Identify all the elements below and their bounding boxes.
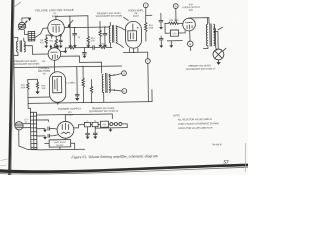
riser right xyxy=(151,90,153,102)
wire V7 grid input xyxy=(35,28,48,38)
tube V9 plate xyxy=(53,76,62,92)
tube V9 inner xyxy=(55,78,57,91)
label plate box xyxy=(49,140,71,147)
ground C15 xyxy=(159,45,163,47)
wire T1 secondary top xyxy=(23,38,25,41)
capacitor C21 xyxy=(94,127,96,133)
node E xyxy=(122,89,127,94)
ground C9 xyxy=(73,45,77,47)
riser plate box xyxy=(59,147,61,150)
wire terminal extension xyxy=(122,124,127,128)
transformer T2 core xyxy=(111,25,113,42)
bus drop to R24 xyxy=(111,114,113,119)
wire T3 primary top xyxy=(207,18,209,24)
wire T3 rail 2 xyxy=(217,32,219,49)
paper grain xyxy=(0,0,1,1)
capacitor C15 xyxy=(160,36,162,38)
wire M1 top xyxy=(22,18,29,22)
resistor R22 xyxy=(82,67,84,78)
node D xyxy=(122,71,127,76)
ground C13 xyxy=(159,27,163,29)
ground R12 xyxy=(98,45,102,47)
tube V10 cathode xyxy=(187,25,192,29)
ground right xyxy=(170,41,172,45)
wire V7 plate to top bus xyxy=(55,16,57,19)
top-left scan mark xyxy=(15,2,22,7)
bus below V8 xyxy=(123,51,147,53)
left riser xyxy=(27,79,29,82)
wire T5 feed xyxy=(80,62,102,73)
ground R10 xyxy=(55,44,57,45)
ground C12 xyxy=(83,56,87,58)
capacitor C20 xyxy=(86,127,88,133)
resistor R19 xyxy=(165,22,169,24)
wire node F drop xyxy=(144,8,147,23)
wire lower link xyxy=(167,40,182,42)
wire V6 pin leads top xyxy=(51,44,58,48)
wire V10 cathode drop xyxy=(189,31,191,41)
resistor R24 box xyxy=(100,121,108,127)
ground C8 xyxy=(59,46,63,48)
jack J2 stub xyxy=(223,48,226,51)
tube V8 plate xyxy=(128,31,137,41)
transformer T2 primary winding xyxy=(109,26,110,43)
wire T1 secondary to V6 xyxy=(24,45,48,54)
arrowhead to stage xyxy=(28,18,32,22)
tube V6 grid xyxy=(51,51,58,53)
wire V6 to V9 xyxy=(54,60,56,71)
bottom-left streaks xyxy=(1,159,8,161)
bottom scan band xyxy=(0,164,248,174)
rectifier V11 filament xyxy=(62,132,70,134)
binding edge bar xyxy=(8,0,14,175)
wire bus to T2 xyxy=(107,46,112,48)
tube V7 pin 4 xyxy=(51,35,53,37)
arrowhead xyxy=(67,23,70,27)
node C xyxy=(147,52,149,58)
wire T4 tap 2 xyxy=(37,128,45,130)
wire node B drop xyxy=(189,47,191,51)
terminal O1 xyxy=(110,123,113,126)
wire V6 plate right xyxy=(61,51,66,53)
wire T2 secondary bottom xyxy=(116,43,123,48)
rectifier V11 plates xyxy=(62,123,68,129)
bus row4 top xyxy=(36,114,112,115)
capacitor C17 xyxy=(76,67,78,95)
wire V7 cathode lead xyxy=(51,36,53,38)
ground output xyxy=(109,128,111,130)
lower output rail xyxy=(95,127,127,129)
junction dot plate bus xyxy=(74,27,75,28)
wire node A drop xyxy=(175,8,177,21)
capacitor C11 xyxy=(92,45,94,49)
resistor R12 xyxy=(99,21,101,30)
wire stub right xyxy=(146,14,152,16)
wire bus segment xyxy=(76,47,93,49)
resistor R9 xyxy=(45,37,47,44)
wire tap stub xyxy=(218,27,223,30)
transformer T5 primary winding xyxy=(102,74,104,92)
resistor R18 xyxy=(144,22,147,31)
jack J2 xyxy=(213,49,224,60)
wire R24 out xyxy=(108,123,109,125)
capacitor C22 xyxy=(47,134,49,138)
tube V7 grid xyxy=(52,23,61,25)
bus row3 bottom xyxy=(28,102,152,104)
wire T1 primary top xyxy=(13,37,17,41)
wire T2 secondary top diagonal xyxy=(116,26,126,31)
ground column 1 xyxy=(68,45,72,47)
wire V7 screen lead xyxy=(60,36,62,39)
rectifier V11 envelope xyxy=(57,121,74,138)
transformer T3 core xyxy=(209,23,211,46)
wire choke link xyxy=(90,123,100,125)
tube V9 envelope xyxy=(49,72,66,103)
wire P1 leads xyxy=(23,124,31,128)
wire T5 secondary bottom lead xyxy=(109,90,122,92)
capacitor C8 xyxy=(59,39,63,41)
choke L1 xyxy=(84,122,90,126)
terminal O3 xyxy=(119,122,122,125)
node F xyxy=(143,3,148,8)
switch S1 xyxy=(28,31,35,40)
resistor R23 xyxy=(90,79,92,86)
ground C10 xyxy=(103,45,107,47)
tube V8 envelope xyxy=(125,21,141,48)
wire T4 tap 3 xyxy=(37,135,45,137)
tube V6 cathode xyxy=(52,54,57,58)
wire T5 primary bottom xyxy=(103,92,105,102)
tube V10 envelope xyxy=(183,18,196,31)
wire T1 bottom xyxy=(14,52,18,55)
wire V10 plate to T3 xyxy=(189,18,209,24)
wire V7 plate bus xyxy=(64,26,109,29)
wire V7 suppressor lead xyxy=(55,36,57,39)
resistor R16 xyxy=(28,78,38,80)
wire T2 primary top xyxy=(109,22,111,26)
ground C22 xyxy=(44,136,46,137)
microphone input M1 xyxy=(18,22,26,30)
plug P1 xyxy=(15,122,23,130)
transformer T1 core xyxy=(19,40,21,51)
junction dot xyxy=(57,102,58,103)
tube V8 pin dot xyxy=(137,27,138,28)
resistor R17 xyxy=(100,46,107,48)
wire bus segment xyxy=(94,46,100,48)
wire plate box left xyxy=(45,143,49,145)
wire T3 rail 1 xyxy=(215,29,216,51)
capacitor C13 xyxy=(160,13,162,20)
page background xyxy=(0,0,248,175)
wire rail from choke xyxy=(94,127,96,128)
ground C17 xyxy=(75,98,79,101)
node B xyxy=(187,41,193,47)
wire terminals xyxy=(113,123,119,125)
wire to V9 bottom xyxy=(28,96,50,98)
control arrow into V7 xyxy=(68,20,73,25)
tube V7 cathode xyxy=(53,25,59,32)
tube V6 pin circles xyxy=(50,46,51,47)
transformer T1 secondary winding xyxy=(24,41,26,52)
transformer T3 secondary winding xyxy=(213,24,215,46)
power cord drop xyxy=(19,130,41,151)
tube V7 envelope xyxy=(48,20,65,37)
capacitor C10 xyxy=(104,27,106,33)
resistor R15 xyxy=(69,47,76,49)
wire node C drop xyxy=(147,63,150,101)
wire plate box right xyxy=(71,143,75,149)
transformer T5 secondary winding xyxy=(109,74,111,92)
wire T4 tap 1 xyxy=(37,120,49,122)
wire S1 left xyxy=(25,30,29,34)
riser V11 xyxy=(65,138,67,139)
wire V7 screen feed xyxy=(74,28,76,34)
wire V8 pin leads bottom xyxy=(129,48,138,52)
ground R14 xyxy=(87,43,89,45)
wire C16 left xyxy=(165,23,170,33)
ground R9 xyxy=(45,44,47,46)
left riser lower xyxy=(28,90,31,113)
tube V7 pin 8 xyxy=(60,35,62,37)
right page edge xyxy=(244,143,247,172)
capacitor C9 xyxy=(72,32,77,34)
node A xyxy=(173,4,178,9)
junction dot xyxy=(133,52,134,53)
resistor R14 xyxy=(87,16,89,37)
transformer T1 primary winding xyxy=(16,41,18,52)
resistor R21 xyxy=(27,83,29,90)
junction dot bus xyxy=(82,66,83,67)
resistor R10 xyxy=(55,39,57,44)
capacitor C19 xyxy=(47,127,49,131)
signal bus row2 xyxy=(65,47,68,49)
ground J2 xyxy=(218,60,220,62)
wire screen bypass column xyxy=(69,16,71,45)
wire T3 secondary taps xyxy=(213,29,218,32)
junction dot T3 xyxy=(214,31,215,32)
choke L2 xyxy=(92,122,98,126)
wire T3 primary bottom xyxy=(203,46,208,49)
tube V8 grid detail xyxy=(130,24,133,39)
wire C16 right xyxy=(178,31,185,33)
tube V10 grid xyxy=(185,22,192,24)
wire V6 to bus xyxy=(64,48,66,52)
ground under bus xyxy=(64,48,66,51)
ground C19 xyxy=(44,129,46,130)
transformer T2 secondary winding xyxy=(116,26,117,43)
wire R9 top xyxy=(46,35,52,37)
T4 terminal dots xyxy=(35,119,36,120)
bottom rail xyxy=(41,148,85,151)
wire V9 bottom xyxy=(57,102,59,104)
transformer T5 core xyxy=(105,73,107,93)
junction dot xyxy=(91,102,92,103)
power transformer T4 board xyxy=(30,112,37,149)
wire T5 secondary top lead xyxy=(109,73,122,75)
wire V8 top feed xyxy=(124,17,129,20)
binding bar soft edge xyxy=(11,0,15,175)
transformer T3 primary winding xyxy=(206,24,208,46)
left bus xyxy=(13,35,14,126)
ground R16 xyxy=(37,89,39,92)
wire T2 primary bottom xyxy=(110,43,112,48)
capacitor box C16 xyxy=(170,30,178,36)
bus row3 xyxy=(14,66,122,68)
bottom band shadow xyxy=(0,167,248,174)
wire V11 top xyxy=(64,115,66,122)
tube V6 envelope xyxy=(48,48,61,61)
capacitor C12 xyxy=(83,48,85,53)
terminal O2 xyxy=(114,122,117,125)
wire V6 right lower xyxy=(61,56,80,63)
arrow through M1 xyxy=(18,22,26,30)
wire top bus xyxy=(56,15,88,18)
wire V11 output xyxy=(74,125,85,128)
